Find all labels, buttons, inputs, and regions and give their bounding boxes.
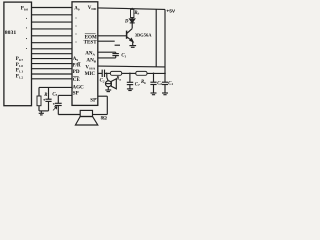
svg-text:Rb: Rb: [141, 80, 146, 85]
wire ANA IN: [98, 57, 116, 59]
wire R to C5 bottom: [39, 110, 49, 112]
transistor Q1 3DG56A: [127, 29, 133, 46]
svg-text:A0: A0: [74, 6, 80, 11]
capacitor C3 (speaker coupling): [53, 95, 62, 114]
pin dots U2 column: [75, 17, 76, 18]
wire bus line 2: [32, 14, 73, 16]
node Rb top junction: [131, 8, 133, 10]
svg-text:VDD: VDD: [88, 6, 97, 11]
resistor R (AGC): [37, 87, 41, 111]
svg-text:+5V: +5V: [166, 8, 175, 14]
wire TEST stub: [98, 40, 115, 42]
wire VCCA drop: [155, 9, 157, 66]
ground (AGC): [39, 111, 44, 115]
wire ANA OUT: [98, 51, 116, 53]
wire bus line 8: [32, 53, 73, 55]
overline CE: [73, 76, 79, 78]
svg-text:PD: PD: [73, 69, 80, 75]
wire AGC: [39, 86, 72, 88]
wire rail to +5V: [147, 72, 165, 74]
wire bus line 7: [32, 48, 73, 50]
node C7: [129, 73, 131, 75]
wire MIC pin: [98, 72, 102, 74]
capacitor C1: [112, 52, 119, 58]
svg-text:P0.0: P0.0: [21, 7, 29, 12]
TEST termination dash: [115, 44, 120, 46]
wire speaker left: [58, 114, 80, 116]
svg-text:D: D: [124, 20, 129, 25]
ground (emitter): [129, 46, 136, 48]
node C4 / rail corner: [164, 73, 166, 75]
svg-text:Rb: Rb: [134, 11, 139, 16]
capacitor C6: [150, 73, 156, 92]
svg-text:VSSA: VSSA: [85, 66, 95, 71]
wire bus line 11 (PD): [32, 68, 73, 70]
svg-text:ANA: ANA: [85, 51, 95, 57]
svg-text:C7: C7: [135, 82, 140, 87]
svg-text:R: R: [44, 93, 47, 98]
svg-text:8Ω: 8Ω: [101, 117, 107, 122]
svg-text:SP′: SP′: [90, 98, 98, 103]
ground (C7): [127, 89, 133, 91]
power rail +5V vertical: [164, 9, 166, 73]
junction dots: [26, 8, 166, 75]
svg-text:8031: 8031: [5, 30, 17, 36]
svg-text:P0.7: P0.7: [16, 57, 24, 62]
wire bus line 9 (A9): [32, 58, 73, 60]
wire EOM to transistor base: [98, 35, 126, 37]
resistor Rb (LED pull-up): [131, 8, 134, 17]
wire bus line 1 (P0.0 / A0): [32, 7, 73, 9]
wire SP left: [58, 94, 72, 96]
svg-text:P/R: P/R: [72, 63, 81, 69]
svg-text:SP: SP: [73, 90, 79, 96]
ground (C4): [162, 93, 168, 95]
wire bus line 5: [32, 35, 73, 37]
wire to C7 node: [122, 72, 136, 74]
svg-text:CE: CE: [73, 77, 81, 83]
wire bus line 10 (P/R): [32, 63, 73, 65]
wire bus line 3: [32, 21, 73, 23]
wire bus line 4: [32, 28, 73, 30]
resistor Rb2 (supply series): [136, 71, 147, 75]
wire bus line 12: [32, 73, 73, 75]
resistor Ra (mic bias): [110, 71, 121, 75]
capacitor C2 (mic coupling): [102, 70, 104, 77]
svg-text:C2: C2: [100, 79, 105, 84]
capacitor C4: [162, 73, 168, 92]
ground (C6): [151, 93, 157, 95]
node mic: [106, 73, 108, 75]
ground (microphone): [105, 87, 111, 92]
capacitor C5 (AGC): [43, 87, 51, 111]
svg-text:C6: C6: [157, 81, 162, 86]
svg-text:MIC: MIC: [85, 71, 96, 77]
overline EOM: [85, 33, 96, 35]
microphone MIC: [105, 73, 116, 88]
wire bus line 13 (CE): [32, 78, 73, 80]
svg-text:P1.1: P1.1: [16, 69, 24, 74]
overline P/R: [78, 62, 81, 64]
svg-text:TEST: TEST: [84, 39, 98, 45]
svg-text:C5: C5: [52, 92, 57, 97]
microcontroller U1 8031 box: [4, 2, 32, 106]
svg-text:C4: C4: [168, 81, 173, 86]
diode D: [130, 18, 135, 29]
capacitor C7: [127, 73, 133, 88]
svg-text:ANB: ANB: [86, 57, 96, 63]
wire VDD to +5V rail: [98, 8, 165, 9]
wire mic node: [105, 72, 111, 74]
wire SP' to speaker: [93, 96, 108, 114]
svg-text:C1: C1: [121, 54, 126, 59]
svg-text:3DG56A: 3DG56A: [135, 32, 153, 37]
node C6: [153, 73, 155, 75]
svg-text:P1.0: P1.0: [16, 63, 24, 68]
wire VSSA to rail: [98, 65, 165, 68]
speaker SP: [75, 110, 97, 125]
wire bus line 6: [32, 42, 73, 44]
voice chip U2 box: [72, 2, 98, 106]
svg-text:Ra: Ra: [116, 77, 121, 82]
svg-text:A9: A9: [73, 57, 79, 62]
svg-text:P1.2: P1.2: [16, 75, 24, 80]
pin dots U1 column: [26, 18, 27, 19]
